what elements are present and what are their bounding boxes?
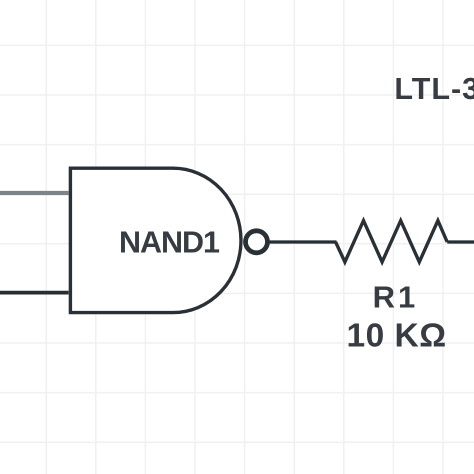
wire gray input A xyxy=(0,191,69,195)
svg-text:LTL-30: LTL-30 xyxy=(394,72,474,106)
output bubble xyxy=(246,231,268,253)
svg-text:R1: R1 xyxy=(373,280,419,315)
resistor R1 xyxy=(336,221,448,262)
wire right lead xyxy=(447,240,474,243)
svg-text:10 KΩ: 10 KΩ xyxy=(346,318,446,355)
gate NAND1 xyxy=(70,168,241,312)
svg-text:NAND1: NAND1 xyxy=(119,225,220,259)
wire input B xyxy=(0,291,69,295)
wire output xyxy=(268,240,337,243)
